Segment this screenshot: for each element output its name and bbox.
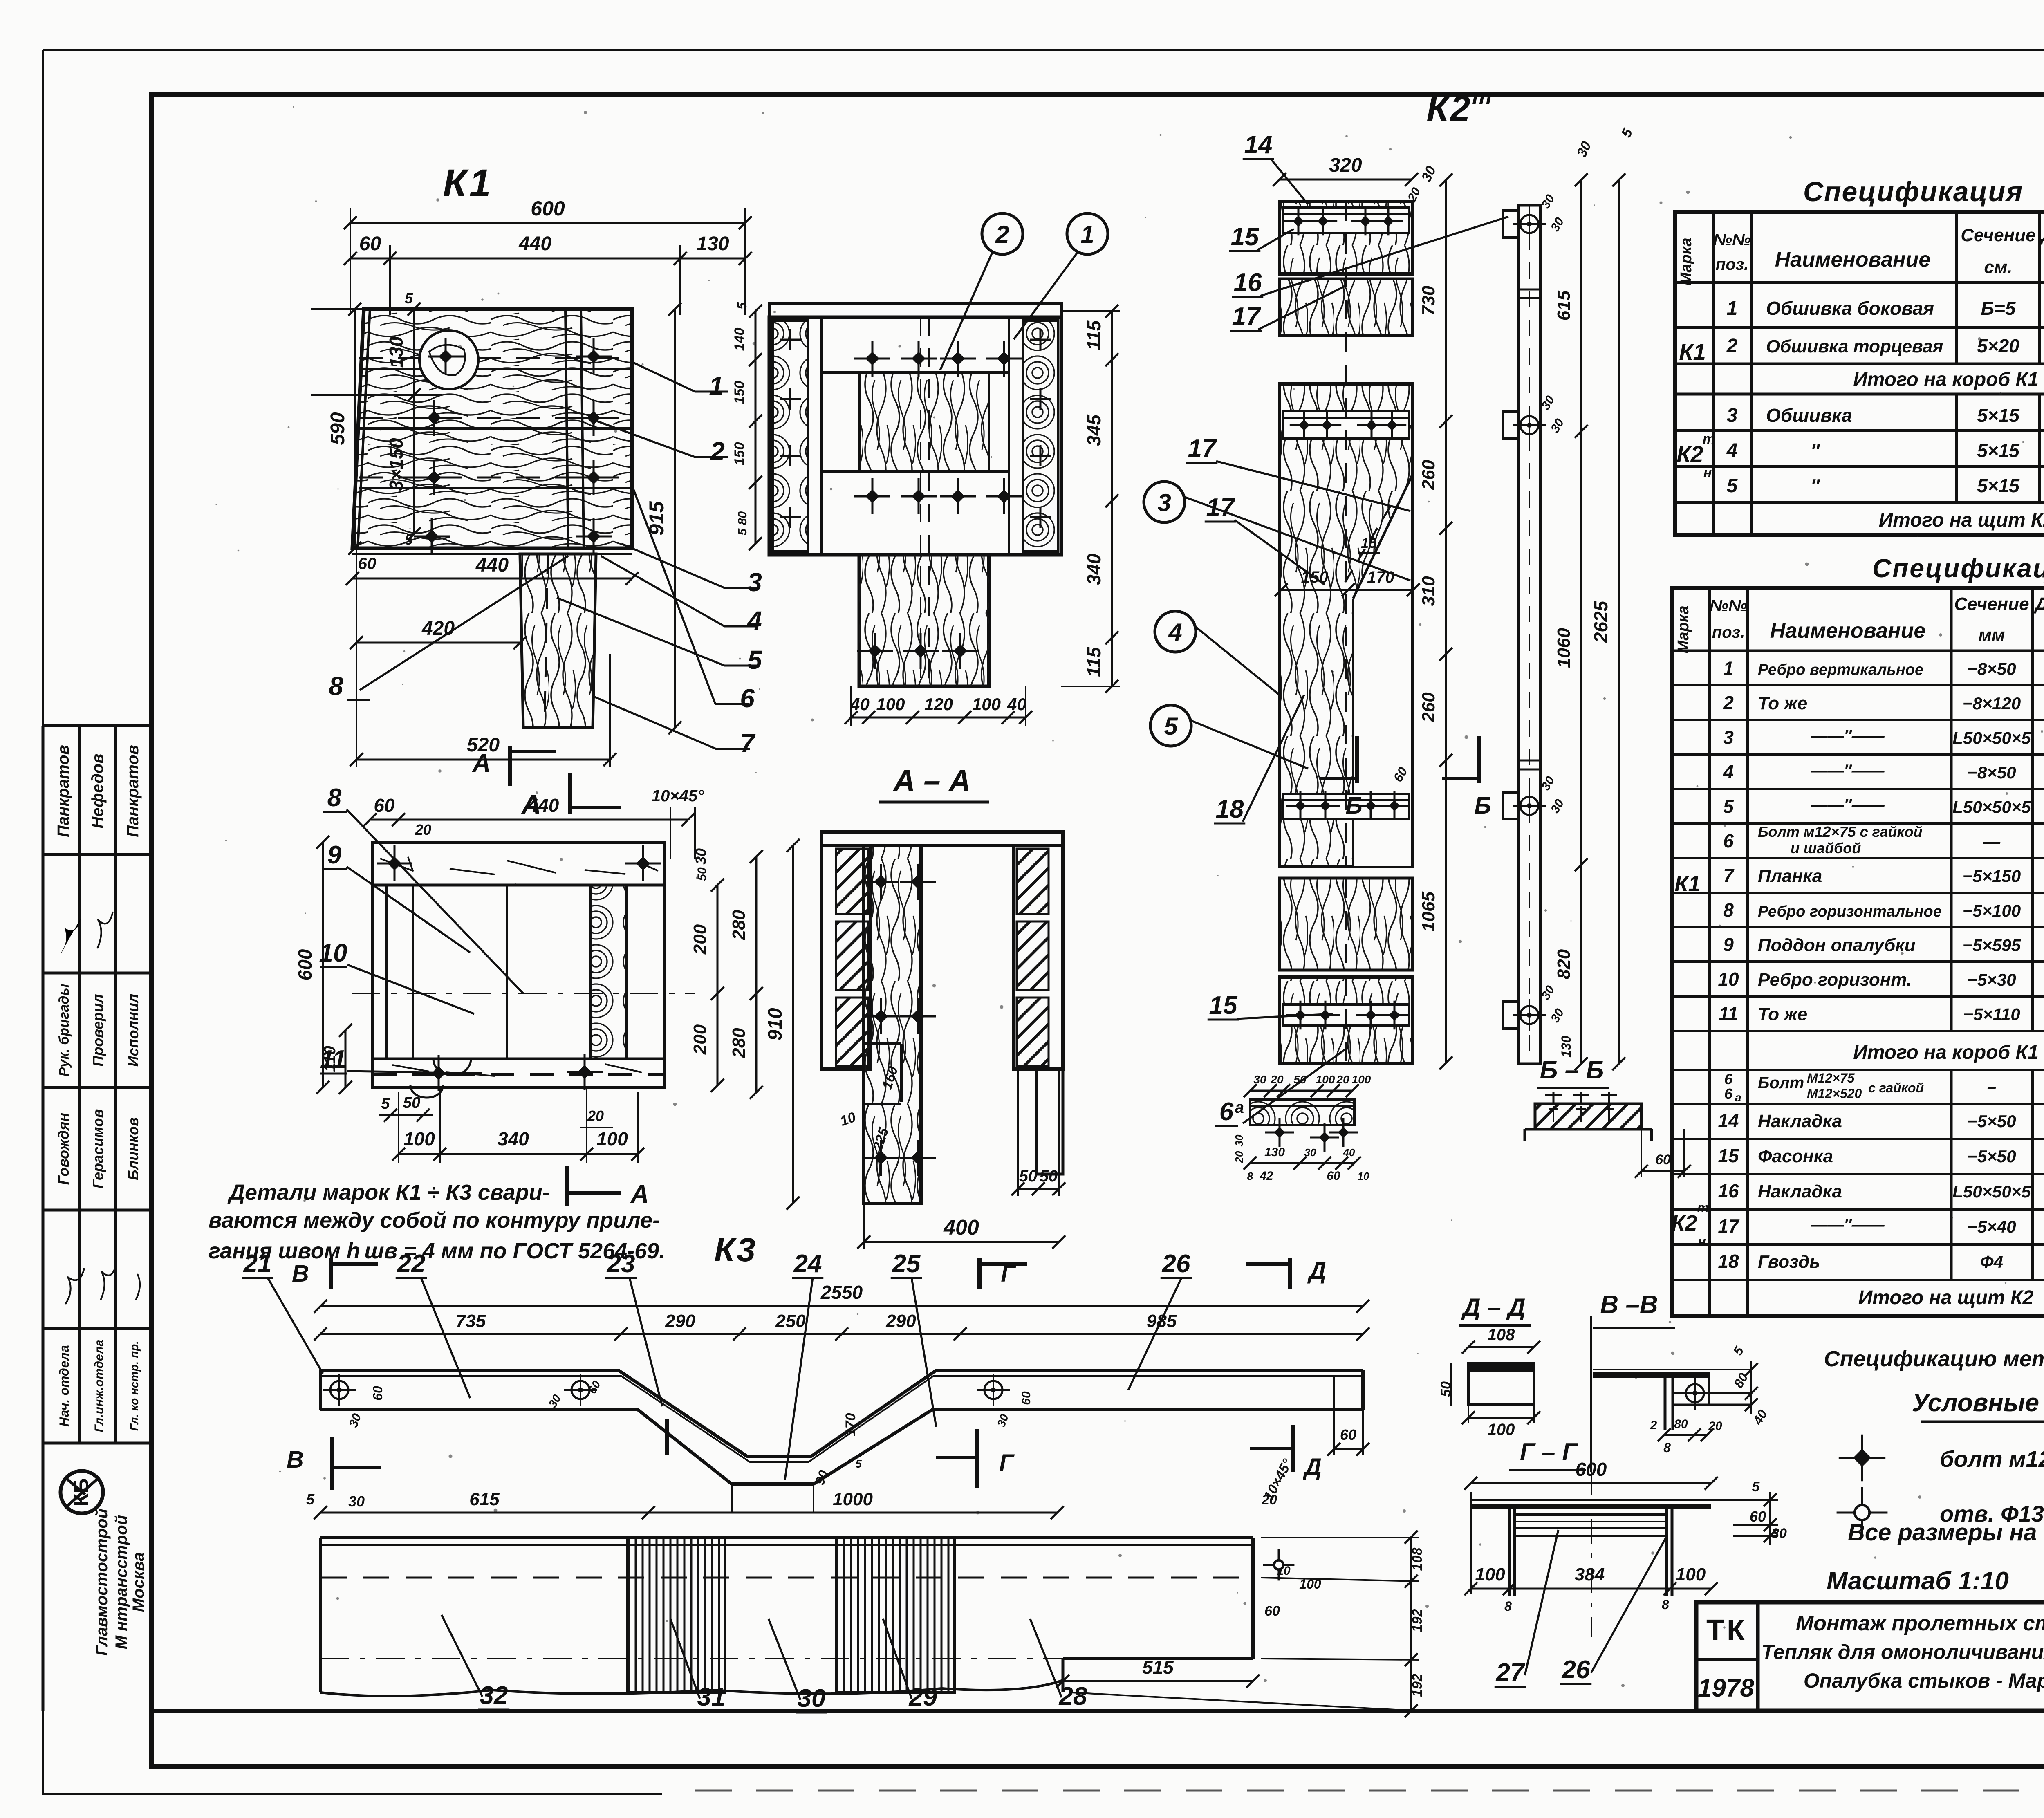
svg-text:5: 5 [1164, 713, 1178, 740]
svg-text:10: 10 [1718, 968, 1739, 990]
A-A right dim 910 [792, 845, 794, 1203]
svg-text:60: 60 [1655, 1152, 1671, 1168]
svg-text:болт м12 нормальной точност: болт м12 нормальной точности [1940, 1446, 2044, 1472]
svg-text:100: 100 [972, 695, 1001, 714]
K2t dim col 730 260 310 260 1065 [1445, 180, 1447, 1063]
plan section mark A bottom [565, 1166, 569, 1206]
svg-text:170: 170 [1367, 568, 1394, 586]
T-view left small dims [755, 311, 757, 544]
svg-text:К3: К3 [714, 1231, 758, 1269]
svg-text:108: 108 [1488, 1326, 1515, 1344]
svg-text:30: 30 [1233, 1134, 1245, 1146]
svg-text:н: н [1703, 465, 1712, 481]
svg-text:30: 30 [693, 848, 709, 865]
svg-text:400: 400 [943, 1216, 979, 1240]
svg-text:6: 6 [740, 684, 755, 713]
svg-text:985: 985 [1147, 1311, 1177, 1331]
T-view side end-grain strips [773, 321, 808, 551]
svg-text:Панкратов: Панкратов [124, 745, 142, 837]
K2t bar dims [1580, 180, 1582, 1064]
svg-text:Все размеры на чертеже в м: Все размеры на чертеже в мм [1848, 1519, 2044, 1546]
svg-text:290: 290 [665, 1311, 695, 1331]
svg-text:260: 260 [1419, 460, 1439, 490]
svg-text:5×15: 5×15 [1977, 405, 2020, 426]
svg-text:Спецификацию металла на мар: Спецификацию металла на марку К3 см. лис… [1824, 1347, 2044, 1371]
svg-text:М нтрансстрой: М нтрансстрой [112, 1515, 130, 1649]
Г-Г dim 600 [1471, 1482, 1711, 1484]
svg-text:Нач. отдела: Нач. отдела [57, 1345, 72, 1426]
svg-text:1065: 1065 [1419, 892, 1439, 932]
svg-text:80: 80 [1674, 1417, 1688, 1431]
svg-text:20: 20 [1708, 1419, 1722, 1433]
svg-text:910: 910 [764, 1008, 786, 1040]
svg-text:К2: К2 [1671, 1211, 1697, 1235]
K3 dim 2550 [320, 1305, 1363, 1307]
svg-text:№№: №№ [1710, 597, 1747, 615]
svg-text:108: 108 [1410, 1548, 1425, 1571]
svg-text:28: 28 [1059, 1682, 1087, 1710]
plan left dims 600 110 [322, 842, 324, 1087]
svg-text:Сечение: Сечение [1961, 225, 2035, 245]
svg-text:2: 2 [710, 437, 725, 466]
K3 strip striped blocks [627, 1538, 725, 1692]
svg-text:Ребро горизонтальное: Ребро горизонтальное [1758, 903, 1942, 920]
svg-text:280: 280 [729, 910, 749, 940]
plan left wall [385, 885, 388, 1059]
svg-text:7: 7 [740, 729, 756, 758]
svg-text:4: 4 [1168, 619, 1182, 646]
svg-text:26: 26 [1562, 1656, 1590, 1684]
svg-text:20: 20 [415, 821, 431, 838]
svg-text:30: 30 [798, 1684, 826, 1713]
svg-text:гания швом h шв = 4 мм по ГО: гания швом h шв = 4 мм по ГОСТ 5264-69. [208, 1239, 665, 1263]
K1 section mark A bottom [568, 773, 572, 814]
Г-Г legs [1508, 1509, 1511, 1596]
T-view bolts [854, 341, 890, 377]
svg-text:–: – [1987, 1078, 1996, 1096]
svg-text:В: В [292, 1260, 309, 1287]
svg-text:Гвоздь: Гвоздь [1758, 1252, 1820, 1272]
plan weld arcs [433, 1059, 471, 1075]
svg-text:8: 8 [1663, 1440, 1671, 1455]
svg-text:21: 21 [243, 1250, 272, 1278]
svg-text:1: 1 [709, 371, 724, 401]
svg-text:Детали марок К1 ÷ К3 свари-: Детали марок К1 ÷ К3 свари- [227, 1180, 550, 1205]
svg-text:Проверил: Проверил [90, 994, 106, 1066]
K3 profile bolt circles [323, 1374, 356, 1406]
svg-text:30: 30 [1771, 1526, 1787, 1541]
svg-text:Обшивка торцевая: Обшивка торцевая [1766, 336, 1943, 356]
svg-text:Исполнил: Исполнил [125, 994, 141, 1067]
svg-text:Б: Б [1345, 792, 1362, 819]
K1 dim 440 [352, 578, 632, 580]
svg-text:Итого на короб К1: Итого на короб К1 [1853, 1042, 2039, 1063]
A-A centre plank [864, 845, 921, 1203]
svg-text:440: 440 [518, 233, 551, 255]
svg-text:200: 200 [690, 1024, 710, 1055]
K1 dim 600 [350, 222, 745, 224]
svg-text:384: 384 [1575, 1565, 1605, 1585]
svg-text:60: 60 [1020, 1391, 1033, 1405]
svg-text:17: 17 [1188, 435, 1217, 463]
svg-text:10: 10 [1358, 1170, 1369, 1182]
svg-text:3: 3 [747, 567, 762, 597]
svg-text:170: 170 [843, 1413, 858, 1437]
svg-text:1: 1 [1727, 298, 1738, 319]
svg-text:60: 60 [374, 795, 395, 816]
svg-text:290: 290 [885, 1311, 916, 1331]
svg-text:Поддон опалубки: Поддон опалубки [1758, 935, 1916, 955]
svg-text:Марка: Марка [1675, 605, 1692, 653]
svg-text:−5×30: −5×30 [1967, 970, 2016, 989]
svg-text:27: 27 [1496, 1659, 1525, 1687]
svg-text:Панкратов: Панкратов [54, 745, 72, 837]
svg-text:К1: К1 [443, 161, 493, 205]
plan axis dashed [352, 993, 695, 994]
svg-text:1978: 1978 [1698, 1674, 1754, 1702]
svg-text:60: 60 [1327, 1169, 1340, 1183]
svg-text:150: 150 [732, 442, 747, 466]
svg-text:5: 5 [306, 1491, 315, 1508]
svg-text:L50×50×5: L50×50×5 [1952, 797, 2031, 816]
svg-text:−5×595: −5×595 [1963, 935, 2021, 955]
svg-text:100: 100 [876, 695, 905, 714]
svg-text:150: 150 [732, 381, 747, 404]
svg-text:8: 8 [1723, 899, 1734, 921]
svg-text:6: 6 [1724, 1085, 1733, 1102]
svg-text:29: 29 [909, 1683, 937, 1711]
svg-text:115: 115 [1083, 320, 1105, 350]
svg-text:340: 340 [498, 1128, 529, 1150]
svg-text:590: 590 [327, 412, 349, 445]
svg-text:Итого на щит К2: Итого на щит К2 [1858, 1287, 2034, 1309]
svg-text:130: 130 [1264, 1145, 1285, 1159]
svg-text:Обшивка: Обшивка [1766, 405, 1852, 426]
svg-text:Длина: Длина [2033, 594, 2044, 614]
Г-Г bottom dims [1471, 1588, 1711, 1590]
svg-text:А: А [630, 1180, 649, 1208]
svg-text:4: 4 [1723, 761, 1734, 782]
svg-text:250: 250 [775, 1311, 806, 1331]
svg-text:см.: см. [1984, 257, 2012, 277]
K1 right dim 915 [674, 309, 676, 728]
K1 outer left dim 590 [354, 309, 356, 548]
svg-text:——″——: ——″—— [1811, 762, 1885, 780]
svg-text:т: т [1703, 431, 1715, 447]
svg-text:7: 7 [1723, 865, 1735, 886]
svg-text:−8×50: −8×50 [1967, 659, 2016, 678]
svg-text:Гл. ко нстр. пр.: Гл. ко нстр. пр. [128, 1341, 141, 1431]
K2t board 3 (long with plate and cut) [1280, 384, 1412, 866]
svg-text:30: 30 [1253, 1073, 1266, 1086]
svg-text:Опалубка стыков - Марки К1.: Опалубка стыков - Марки К1. К2. К3. [1804, 1669, 2044, 1692]
svg-text:735: 735 [456, 1311, 486, 1331]
svg-text:″: ″ [1811, 440, 1820, 461]
svg-text:Накладка: Накладка [1758, 1111, 1842, 1131]
title block [1696, 1602, 2044, 1711]
svg-text:6: 6 [1724, 1071, 1733, 1087]
svg-text:60: 60 [1750, 1508, 1766, 1525]
svg-text:Герасимов: Герасимов [90, 1109, 106, 1189]
svg-text:615: 615 [469, 1489, 500, 1509]
Г-Г centre axis [1591, 1470, 1592, 1637]
svg-text:17: 17 [1718, 1215, 1740, 1237]
svg-text:5: 5 [735, 302, 749, 309]
K1 leaders 1-8 [632, 362, 695, 392]
svg-text:5: 5 [747, 645, 762, 675]
svg-text:и шайбой: и шайбой [1791, 840, 1861, 856]
svg-text:20: 20 [1261, 1492, 1277, 1508]
T-view bottom dims 40 100 120 100 40 [851, 717, 1026, 719]
svg-text:60: 60 [358, 555, 377, 573]
svg-text:Д: Д [1307, 1258, 1326, 1284]
svg-text:——″——: ——″—— [1811, 1216, 1885, 1234]
svg-text:320: 320 [1329, 155, 1362, 176]
svg-text:Ребро вертикальное: Ребро вертикальное [1758, 661, 1923, 678]
svg-text:15: 15 [1361, 536, 1377, 551]
K3 dims 735 290 250 290 985 [320, 1333, 1363, 1335]
svg-text:2625: 2625 [1590, 600, 1611, 643]
svg-text:40: 40 [1343, 1146, 1355, 1159]
svg-text:260: 260 [1419, 692, 1439, 723]
svg-text:Г: Г [1001, 1260, 1016, 1287]
svg-text:Д – Д: Д – Д [1461, 1293, 1525, 1321]
A-A lower-right studs [1036, 1069, 1063, 1174]
svg-text:100: 100 [1488, 1421, 1515, 1439]
svg-text:515: 515 [1142, 1657, 1174, 1678]
svg-text:−5×50: −5×50 [1967, 1112, 2016, 1131]
left stamp column [43, 724, 151, 727]
svg-text:−5×150: −5×150 [1963, 866, 2021, 885]
svg-text:Москва: Москва [130, 1552, 148, 1612]
svg-text:Фасонка: Фасонка [1758, 1146, 1833, 1166]
svg-text:Сечение: Сечение [1954, 594, 2029, 614]
svg-text:К2: К2 [1676, 441, 1703, 467]
svg-text:Г: Г [999, 1450, 1015, 1476]
svg-text:11: 11 [320, 1045, 346, 1074]
В-В bottom dims [1664, 1434, 1707, 1436]
svg-text:т: т [1697, 1200, 1709, 1215]
svg-text:Наименование: Наименование [1770, 619, 1926, 643]
svg-text:192: 192 [1410, 1674, 1425, 1697]
svg-text:22: 22 [397, 1250, 426, 1278]
K2t board 2 [1280, 279, 1412, 336]
svg-text:Итого на щит К2: Итого на щит К2 [1879, 509, 2044, 531]
svg-text:14: 14 [1244, 131, 1273, 159]
svg-text:5: 5 [855, 1457, 862, 1470]
svg-text:Накладка: Накладка [1758, 1181, 1842, 1202]
wood spec table grid [1675, 212, 2044, 535]
svg-text:60: 60 [370, 1386, 385, 1401]
svg-text:30: 30 [1304, 1146, 1316, 1159]
svg-text:100: 100 [1352, 1073, 1371, 1086]
В-В top bar [1593, 1369, 1751, 1370]
T-view plus ticks on side strips [780, 339, 801, 341]
svg-text:9: 9 [327, 841, 342, 869]
svg-text:600: 600 [531, 197, 565, 220]
svg-text:4: 4 [1726, 440, 1738, 462]
svg-text:Гл.инж.отдела: Гл.инж.отдела [92, 1340, 106, 1432]
svg-text:Наименование: Наименование [1775, 248, 1931, 271]
K1 pallet below [352, 553, 632, 555]
K3 strip dim 515 [1063, 1680, 1253, 1682]
svg-text:Монтаж пролетных строений 4: Монтаж пролетных строений 45,0 и 55,0м [1796, 1612, 2044, 1635]
svg-text:100: 100 [1316, 1073, 1335, 1086]
svg-text:3: 3 [1157, 489, 1171, 516]
svg-text:L50×50×5: L50×50×5 [1952, 1182, 2031, 1201]
K2t board 3 second plate [1283, 794, 1409, 819]
svg-text:−5×50: −5×50 [1967, 1147, 2016, 1166]
svg-text:140: 140 [732, 328, 747, 351]
svg-text:310: 310 [1419, 576, 1439, 606]
svg-text:10: 10 [319, 939, 347, 967]
svg-text:730: 730 [1419, 285, 1439, 316]
svg-text:115: 115 [1083, 646, 1105, 677]
A-A dims 50 50 [1018, 1188, 1059, 1190]
svg-text:Рук. бригады: Рук. бригады [56, 984, 72, 1077]
svg-text:Нефедов: Нефедов [89, 753, 107, 828]
svg-text:″: ″ [1811, 475, 1820, 496]
svg-text:3: 3 [1727, 405, 1738, 426]
svg-text:мм: мм [1978, 625, 2005, 645]
K2t board 1 [1280, 202, 1412, 274]
svg-text:8: 8 [329, 671, 343, 701]
svg-text:280: 280 [729, 1028, 749, 1058]
svg-text:Тепляк для омоноличивания стык: Тепляк для омоноличивания стыков плит пр… [1762, 1641, 2044, 1663]
svg-text:18: 18 [1718, 1251, 1739, 1272]
svg-text:18: 18 [1216, 795, 1244, 823]
svg-text:5×15: 5×15 [1977, 475, 2020, 496]
svg-text:с гайкой: с гайкой [1868, 1080, 1924, 1095]
svg-text:15: 15 [1718, 1145, 1739, 1166]
footer strip line [151, 1709, 1696, 1713]
svg-text:5: 5 [405, 290, 413, 307]
plan outline [373, 842, 664, 1087]
svg-text:Марка: Марка [1678, 238, 1695, 285]
svg-text:9: 9 [1723, 934, 1734, 955]
K1 panel (side sheathing with wood grain) [352, 309, 632, 548]
svg-text:340: 340 [1083, 554, 1105, 585]
svg-text:—: — [1983, 832, 2001, 851]
svg-text:100: 100 [403, 1128, 435, 1150]
svg-text:40: 40 [850, 695, 870, 714]
svg-text:3: 3 [1723, 726, 1734, 748]
svg-text:60: 60 [359, 233, 381, 255]
A-A inner step lines [864, 1042, 901, 1045]
svg-text:а: а [1735, 1091, 1741, 1104]
svg-text:К1: К1 [1674, 872, 1700, 896]
svg-text:50: 50 [1293, 1073, 1307, 1086]
svg-text:8: 8 [1504, 1599, 1512, 1614]
svg-text:5×20: 5×20 [1977, 335, 2019, 356]
svg-text:100: 100 [1676, 1565, 1706, 1585]
svg-text:Ребро горизонт.: Ребро горизонт. [1758, 970, 1912, 990]
K1 inner slant edge [358, 309, 370, 548]
K1 knot circle [419, 330, 478, 389]
svg-text:15: 15 [1209, 991, 1238, 1020]
svg-text:−8×50: −8×50 [1967, 763, 2016, 782]
svg-text:——″——: ——″—— [1811, 796, 1885, 814]
svg-text:М12×520: М12×520 [1807, 1086, 1862, 1101]
svg-text:L50×50×5: L50×50×5 [1952, 728, 2031, 747]
A-A dim 400 [864, 1241, 1059, 1243]
A-A left wall [822, 845, 871, 1069]
svg-text:2550: 2550 [820, 1282, 863, 1303]
svg-text:−5×40: −5×40 [1967, 1217, 2016, 1236]
K1 top view circled marks 2 and 1 [982, 213, 1023, 254]
svg-text:20: 20 [1336, 1073, 1349, 1086]
svg-text:М12×75: М12×75 [1807, 1071, 1855, 1085]
svg-text:В: В [287, 1446, 304, 1473]
Г-Г laminated packing [1515, 1515, 1667, 1536]
plan top dims 60 440 10x45 [370, 819, 688, 821]
svg-text:42: 42 [1259, 1169, 1273, 1183]
svg-text:8: 8 [327, 784, 342, 812]
K3 section marks bottom [330, 1437, 334, 1490]
svg-text:600: 600 [294, 949, 316, 980]
svg-text:В –В: В –В [1600, 1291, 1658, 1319]
K3 profile body [320, 1370, 1363, 1456]
svg-text:Говождян: Говождян [55, 1113, 72, 1185]
svg-text:Болт м12×75 с гайкой: Болт м12×75 с гайкой [1758, 823, 1923, 840]
svg-text:50: 50 [403, 1094, 420, 1112]
svg-text:20: 20 [1270, 1073, 1284, 1086]
svg-text:То же: То же [1758, 693, 1807, 713]
svg-text:130: 130 [1559, 1036, 1573, 1058]
K2t bar gussets [1503, 211, 1518, 238]
svg-text:Блинков: Блинков [125, 1117, 141, 1180]
T-view center grain panels [859, 372, 989, 471]
svg-text:−5×110: −5×110 [1963, 1004, 2020, 1024]
svg-text:2: 2 [1723, 692, 1734, 713]
K1 dim 520 [356, 759, 610, 761]
svg-text:1060: 1060 [1554, 628, 1574, 668]
svg-text:Ф4: Ф4 [1980, 1252, 2003, 1271]
svg-text:Итого на короб К1: Итого на короб К1 [1853, 369, 2039, 390]
svg-text:5: 5 [1752, 1479, 1760, 1495]
plan view section mark A top [508, 746, 512, 786]
K1 vertical batten strip [565, 309, 568, 548]
svg-text:т: т [1472, 85, 1492, 109]
K2t board 4 [1280, 878, 1412, 970]
svg-text:50: 50 [1019, 1167, 1038, 1185]
svg-text:440: 440 [527, 795, 559, 816]
K3 section marks top [329, 1258, 333, 1289]
svg-text:120: 120 [924, 695, 953, 714]
svg-text:16: 16 [1718, 1180, 1739, 1202]
svg-text:−8×120: −8×120 [1963, 694, 2021, 713]
svg-text:5: 5 [1727, 475, 1738, 497]
K3 bottom strip [320, 1536, 1253, 1539]
svg-text:Г – Г: Г – Г [1520, 1438, 1579, 1466]
svg-text:25: 25 [892, 1250, 921, 1278]
K2t right thin bar [1518, 205, 1540, 1064]
plan inner vertical [506, 885, 508, 1059]
K1 bolts [428, 338, 464, 374]
svg-text:К2: К2 [1426, 88, 1472, 128]
svg-text:440: 440 [475, 554, 509, 576]
svg-text:К1: К1 [1679, 339, 1706, 365]
K2t small plan detail [1250, 1090, 1352, 1092]
plan right dims 200/200 & 280/280 [717, 885, 719, 1085]
svg-text:30: 30 [348, 1493, 365, 1510]
Г-Г right dims [1711, 1499, 1778, 1501]
svg-text:н: н [1698, 1234, 1706, 1249]
A-A top batten [822, 832, 1063, 845]
plan end-grain column [591, 885, 626, 1059]
svg-text:Болт: Болт [1758, 1074, 1804, 1092]
svg-text:ТК: ТК [1706, 1614, 1747, 1647]
